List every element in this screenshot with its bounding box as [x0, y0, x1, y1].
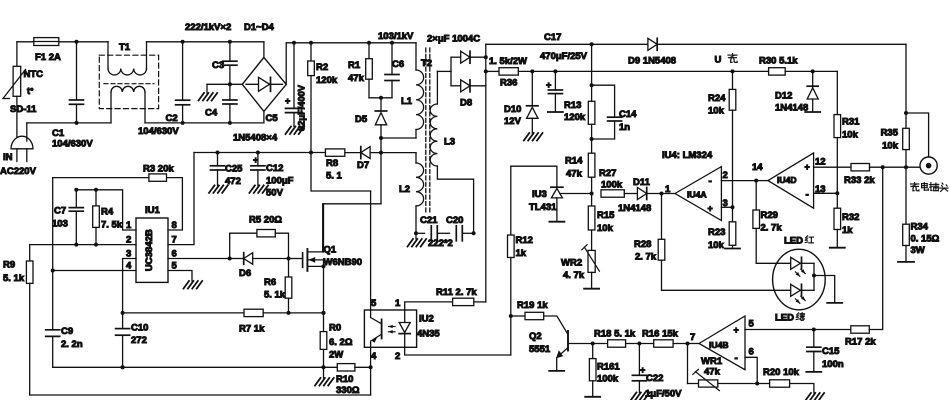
- LED green: [791, 284, 801, 296]
- ground at C12: [249, 185, 255, 193]
- wire bottom feedback rail: [30, 394, 371, 396]
- diode D8 top: [437, 70, 451, 72]
- svg-text:C25: C25: [225, 164, 243, 175]
- wire opto pin1 to R11: [405, 302, 453, 310]
- svg-text:4: 4: [371, 351, 377, 362]
- svg-text:Q2: Q2: [529, 331, 542, 342]
- svg-text:R1: R1: [348, 60, 361, 71]
- svg-text:C10: C10: [131, 323, 148, 334]
- bridge rectifier D1-D4 1N5408x4: [242, 57, 286, 111]
- svg-text:R10: R10: [336, 374, 353, 385]
- diode D12 1N4148: [811, 69, 815, 73]
- fuse F1 2A: [34, 38, 59, 46]
- svg-text:330Ω: 330Ω: [336, 385, 360, 396]
- resistor R33 2k: [851, 164, 870, 171]
- op-amp IU4B: [699, 316, 745, 370]
- svg-text:R7 1k: R7 1k: [239, 324, 265, 335]
- svg-text:R23: R23: [708, 227, 725, 238]
- ground at R23: [725, 248, 740, 250]
- svg-text:R8: R8: [326, 158, 338, 169]
- wire R2 to startup branch: [311, 153, 371, 192]
- svg-text:D7: D7: [357, 160, 369, 171]
- svg-text:R16 15k: R16 15k: [642, 329, 679, 340]
- svg-text:+: +: [640, 365, 645, 375]
- svg-text:R4: R4: [101, 207, 114, 218]
- svg-text:5551: 5551: [529, 344, 551, 355]
- resistor R34 0.15ohm 3W: [905, 167, 907, 224]
- svg-text:5: 5: [371, 298, 377, 309]
- wire sense line: [123, 312, 244, 314]
- svg-text:1k: 1k: [516, 248, 527, 259]
- svg-text:C21: C21: [420, 215, 438, 226]
- resistor R31 10k: [836, 71, 838, 114]
- resistor R2 120k: [310, 43, 312, 61]
- opto phototransistor: [370, 191, 372, 310]
- svg-text:104/630V: 104/630V: [138, 126, 179, 137]
- svg-text:WR1: WR1: [701, 356, 723, 367]
- resistor R30 5.1k: [769, 68, 786, 75]
- capacitor C20 222: [455, 226, 457, 241]
- svg-text:R36: R36: [500, 78, 517, 89]
- svg-text:C15: C15: [822, 346, 840, 357]
- svg-text:D6: D6: [239, 268, 251, 279]
- svg-text:LED: LED: [784, 236, 803, 247]
- ground at C22: [631, 393, 637, 400]
- resistor R16 15k: [654, 340, 673, 347]
- transistor Q1 W6NB90: [302, 253, 304, 268]
- svg-text:7: 7: [690, 332, 695, 343]
- svg-text:2W: 2W: [329, 350, 343, 361]
- svg-text:D5: D5: [355, 114, 368, 125]
- capacitor C3: [229, 42, 231, 61]
- resistor R18 5.1k: [593, 343, 608, 345]
- svg-text:R0: R0: [329, 323, 341, 334]
- svg-text:1: 1: [665, 184, 671, 195]
- svg-text:470μF/25V: 470μF/25V: [540, 51, 588, 62]
- wire Q1 source: [323, 266, 325, 331]
- svg-text:1. 5k/2W: 1. 5k/2W: [489, 56, 527, 67]
- capacitor C14 1n: [592, 85, 615, 117]
- diode D8 bottom: [450, 71, 452, 85]
- wire output rail right: [905, 44, 907, 128]
- svg-text:-: -: [709, 176, 712, 187]
- thermistor NTC SD-11: [13, 66, 21, 96]
- resistor R35 10k: [903, 128, 910, 149]
- wire bridge AC bottom: [263, 111, 265, 123]
- ground at TL431: [549, 221, 564, 223]
- resistor R11 2.7k: [453, 298, 474, 305]
- svg-text:R15: R15: [597, 210, 615, 221]
- ground at pin5: [184, 281, 190, 289]
- resistor R3 20k: [149, 174, 167, 181]
- svg-text:1: 1: [395, 298, 401, 309]
- capacitor C25 472: [216, 151, 220, 155]
- wire VCC rail: [194, 152, 325, 154]
- svg-text:100k: 100k: [601, 180, 623, 191]
- resistor R19 1k: [511, 315, 525, 317]
- svg-text:D11: D11: [633, 177, 651, 188]
- svg-text:R19 1k: R19 1k: [517, 300, 548, 311]
- ground at source rail: [323, 367, 325, 378]
- resistor R32 1k: [836, 193, 838, 208]
- transistor Q2 5551: [567, 331, 569, 351]
- svg-text:R14: R14: [565, 156, 583, 167]
- svg-text:C20: C20: [446, 215, 463, 226]
- svg-text:103/1kV: 103/1kV: [378, 31, 414, 42]
- svg-text:47k: 47k: [348, 73, 365, 84]
- svg-text:+: +: [546, 80, 551, 90]
- resistor R17 2k: [851, 326, 870, 333]
- svg-text:C3: C3: [212, 60, 224, 71]
- opto LED: [404, 310, 406, 323]
- resistor R36 1.5k/2W: [486, 70, 499, 72]
- svg-text:L3: L3: [444, 137, 455, 148]
- wire pin2 FB: [30, 244, 136, 246]
- svg-text:LED: LED: [775, 313, 794, 324]
- svg-text:C17: C17: [544, 32, 561, 43]
- svg-text:47k: 47k: [566, 169, 583, 180]
- ground at R34: [898, 261, 914, 263]
- svg-text:WR2: WR2: [561, 258, 582, 269]
- svg-text:IU4A: IU4A: [687, 190, 707, 200]
- svg-text:R9: R9: [3, 260, 15, 271]
- svg-text:10k: 10k: [708, 106, 725, 117]
- svg-text:D1~D4: D1~D4: [244, 22, 275, 33]
- svg-text:2. 7k: 2. 7k: [761, 223, 783, 234]
- diode D7: [370, 152, 381, 154]
- resistor R14 47k: [591, 139, 593, 153]
- zener diode D10 12V: [530, 69, 534, 73]
- svg-text:6: 6: [749, 347, 754, 358]
- resistor R20 10k: [757, 383, 769, 385]
- node drain: [379, 136, 383, 140]
- wire LED cathodes: [802, 262, 815, 264]
- wire IU4B pin5: [745, 329, 851, 331]
- ground at R20: [805, 393, 811, 400]
- svg-text:R13: R13: [564, 100, 581, 111]
- svg-text:100k: 100k: [597, 374, 619, 385]
- resistor R27 100k: [601, 190, 624, 197]
- svg-text:10k: 10k: [842, 130, 859, 141]
- op-amp IU4A: [675, 167, 721, 221]
- svg-text:R24: R24: [708, 93, 726, 104]
- ground at R32: [830, 247, 845, 249]
- svg-text:5. 1k: 5. 1k: [3, 273, 25, 284]
- wire pin3 current sense: [123, 259, 136, 313]
- wire AC neutral: [26, 123, 28, 141]
- wire IU4D pin12: [814, 166, 851, 168]
- svg-text:2×μF 1004C: 2×μF 1004C: [427, 34, 480, 45]
- resistor R28 2.7k: [661, 194, 663, 240]
- svg-text:3W: 3W: [911, 245, 925, 256]
- svg-text:6. 2Ω: 6. 2Ω: [329, 337, 353, 348]
- svg-text:-: -: [806, 190, 809, 201]
- wire opto pin4: [370, 347, 372, 367]
- svg-text:2: 2: [723, 170, 728, 181]
- wire gate: [289, 258, 303, 260]
- svg-text:222*2: 222*2: [428, 238, 453, 249]
- svg-text:T2: T2: [421, 58, 432, 69]
- resistor R161 100k: [592, 344, 594, 359]
- svg-text:10k: 10k: [708, 240, 725, 251]
- resistor R10 330ohm: [337, 364, 355, 371]
- svg-text:TL431: TL431: [529, 202, 557, 213]
- wire bridge AC top: [263, 42, 265, 58]
- wire pin4 RT/CT: [53, 270, 136, 272]
- svg-text:47k: 47k: [704, 367, 721, 378]
- svg-text:R12: R12: [516, 235, 533, 246]
- svg-text:L2: L2: [399, 184, 410, 195]
- svg-text:C1: C1: [52, 128, 65, 139]
- svg-text:t°: t°: [27, 86, 34, 96]
- svg-text:C22: C22: [646, 373, 663, 384]
- svg-text:R31: R31: [842, 117, 860, 128]
- capacitor C6 103/1kV: [391, 43, 393, 75]
- LED red: [756, 262, 791, 264]
- svg-text:1n: 1n: [619, 122, 630, 133]
- AC plug IN AC220V: [11, 136, 33, 149]
- op-amp IU4D: [756, 180, 768, 182]
- capacitor C4: [229, 84, 231, 100]
- svg-text:50V: 50V: [266, 188, 284, 199]
- ground at L2 return: [414, 231, 418, 235]
- svg-text:C9: C9: [61, 326, 73, 337]
- capacitor C7 103: [75, 190, 77, 208]
- ground at C3 C4 midpoint: [207, 83, 242, 85]
- svg-text:1N4148: 1N4148: [775, 103, 808, 114]
- svg-text:IU1: IU1: [145, 205, 161, 216]
- svg-text:2. 7k: 2. 7k: [635, 252, 657, 263]
- svg-text:D9 1N5408: D9 1N5408: [628, 56, 676, 67]
- svg-text:R3 20k: R3 20k: [143, 164, 174, 175]
- svg-text:R34: R34: [911, 222, 929, 233]
- wire R18 node: [591, 342, 595, 346]
- wire AC line top: [17, 41, 34, 43]
- svg-text:104/630V: 104/630V: [52, 139, 93, 150]
- svg-text:D10: D10: [504, 104, 521, 115]
- svg-text:10k: 10k: [597, 223, 614, 234]
- svg-text:100n: 100n: [822, 359, 844, 370]
- svg-text:1k: 1k: [842, 225, 853, 236]
- capacitor C5 82uF/400V: [293, 43, 295, 109]
- ground at C15: [806, 371, 821, 373]
- ground at D10: [524, 133, 530, 141]
- ground at C25: [209, 185, 215, 193]
- capacitor C21 222: [416, 232, 425, 234]
- svg-text:272: 272: [131, 335, 147, 346]
- transformer T2 winding L1: [416, 70, 424, 130]
- wire pin5 ground: [168, 271, 192, 282]
- transformer T2 winding L3: [436, 71, 438, 104]
- svg-text:T1: T1: [119, 42, 131, 53]
- wire charge rail U-chong: [555, 70, 768, 72]
- diode D5: [375, 113, 386, 125]
- svg-text:R32: R32: [842, 212, 859, 223]
- svg-text:103: 103: [52, 219, 68, 230]
- svg-text:4N35: 4N35: [417, 329, 440, 340]
- svg-text:U: U: [715, 55, 722, 66]
- resistor R5 20ohm: [230, 233, 257, 258]
- resistor R15 10k: [591, 194, 593, 207]
- diode D9 1N5408: [648, 38, 657, 50]
- resistor R13 120k: [591, 44, 593, 101]
- wire IU4A pin2: [721, 180, 756, 182]
- wire TL431 column: [510, 166, 512, 235]
- svg-text:Q1: Q1: [324, 245, 337, 256]
- svg-text:R28: R28: [634, 239, 651, 250]
- transformer T2 winding L2: [381, 152, 416, 154]
- svg-text:10k: 10k: [882, 141, 899, 152]
- wire pin7 VCC: [168, 153, 194, 245]
- svg-text:C12: C12: [266, 163, 283, 174]
- wire NTC to plug: [16, 96, 18, 140]
- optocoupler IU2 4N35: [364, 310, 416, 347]
- svg-text:R30 5.1k: R30 5.1k: [759, 56, 798, 67]
- svg-text:12: 12: [815, 157, 826, 168]
- svg-text:C6: C6: [392, 59, 404, 70]
- wire drain zigzag: [323, 204, 381, 252]
- svg-text:222/1kV×2: 222/1kV×2: [185, 22, 231, 33]
- svg-text:4. 7k: 4. 7k: [563, 270, 585, 281]
- svg-text:+: +: [734, 325, 739, 335]
- svg-text:W6NB90: W6NB90: [324, 257, 363, 268]
- T1 bottom winding: [110, 92, 112, 123]
- wire snubber junction: [369, 97, 392, 99]
- svg-text:+: +: [285, 96, 290, 106]
- svg-text:NTC: NTC: [24, 69, 44, 80]
- svg-text:R161: R161: [597, 362, 620, 373]
- svg-text:IU2: IU2: [419, 314, 434, 325]
- wire IU4B pin6: [745, 357, 757, 383]
- svg-text:IU4: LM324: IU4: LM324: [662, 150, 713, 161]
- controller IU1 UC3842B: [136, 218, 168, 282]
- svg-text:IU4D: IU4D: [777, 175, 797, 185]
- svg-text:2: 2: [395, 351, 400, 362]
- svg-text:1μF/50V: 1μF/50V: [645, 389, 682, 400]
- svg-text:R6: R6: [264, 277, 276, 288]
- resistor R9 5.1k: [29, 245, 31, 261]
- wire pin1 COMP: [76, 190, 136, 230]
- svg-text:120k: 120k: [316, 75, 338, 86]
- resistor R29 2.7k: [755, 181, 757, 210]
- svg-text:L1: L1: [401, 96, 413, 107]
- ground at D12: [805, 111, 820, 113]
- svg-text:R17 2k: R17 2k: [845, 337, 876, 348]
- wire output top rail: [486, 43, 648, 45]
- svg-text:C2: C2: [166, 113, 178, 124]
- svg-text:R20 10k: R20 10k: [763, 367, 800, 378]
- charging plug socket: [920, 157, 937, 174]
- svg-text:5. 1k: 5. 1k: [264, 290, 286, 301]
- transformer T2 core: [425, 48, 427, 212]
- resistor R8 5.1: [325, 149, 344, 156]
- svg-text:1N4148: 1N4148: [618, 203, 651, 214]
- svg-text:C4: C4: [205, 108, 218, 119]
- wire rectifier output bus: [485, 44, 487, 302]
- svg-text:5. 1: 5. 1: [326, 171, 343, 182]
- capacitor C12 100uF 50V: [256, 151, 260, 155]
- svg-text:100μF: 100μF: [266, 176, 294, 187]
- diode D6: [230, 258, 244, 260]
- svg-text:+: +: [805, 162, 810, 172]
- svg-text:7. 5k: 7. 5k: [101, 220, 123, 231]
- resistor R0 6.2ohm 2W: [320, 332, 327, 350]
- svg-text:SD-11: SD-11: [10, 104, 37, 115]
- capacitor C1 104/630V: [76, 42, 78, 100]
- svg-text:R18 5. 1k: R18 5. 1k: [594, 329, 636, 340]
- wire L1 bottom to drain: [381, 137, 416, 139]
- svg-text:2. 2n: 2. 2n: [61, 339, 83, 350]
- resistor R12 1k: [508, 235, 515, 258]
- svg-text:IN: IN: [3, 152, 13, 163]
- svg-text:1N5408×4: 1N5408×4: [233, 133, 278, 144]
- svg-text:IU4B: IU4B: [709, 340, 729, 350]
- potentiometer WR1 47k: [688, 383, 699, 385]
- capacitor C22 1uF/50V: [638, 344, 640, 376]
- common-mode choke T1: [99, 55, 158, 108]
- capacitor C9 2.2n: [52, 271, 54, 330]
- ground at Q2 emitter: [549, 370, 564, 372]
- capacitor C17 470uF/25V: [553, 69, 557, 73]
- svg-text:R35: R35: [881, 128, 899, 139]
- resistor R24 10k: [731, 69, 735, 73]
- capacitor C15 100n: [813, 330, 815, 348]
- potentiometer WR2 4.7k: [588, 250, 595, 272]
- capacitor C10 272: [122, 313, 124, 329]
- wire primary ground rail: [53, 366, 338, 368]
- wire bridge + output to DC bus: [285, 43, 287, 85]
- svg-text:-: -: [735, 353, 738, 364]
- ground at LED: [827, 302, 842, 304]
- resistor R4 7.5k: [95, 190, 97, 206]
- svg-text:R33 2k: R33 2k: [844, 175, 875, 186]
- svg-text:C5: C5: [266, 113, 279, 124]
- svg-text:C14: C14: [619, 109, 637, 120]
- dual LED indicator circle: [773, 249, 826, 310]
- svg-text:82μF/400V: 82μF/400V: [297, 84, 307, 131]
- svg-text:+: +: [253, 155, 258, 165]
- wire IU4A pin3: [721, 206, 732, 208]
- wire opto pin2: [405, 347, 511, 355]
- svg-text:0. 15Ω: 0. 15Ω: [911, 234, 940, 245]
- svg-text:IU3: IU3: [532, 189, 547, 200]
- svg-text:UC3842B: UC3842B: [144, 229, 155, 271]
- wire left input: [16, 42, 18, 67]
- wire R3 to pin4 column: [52, 178, 54, 271]
- svg-text:120k: 120k: [564, 112, 586, 123]
- svg-text:D12: D12: [775, 91, 792, 102]
- svg-text:12V: 12V: [504, 116, 522, 127]
- capacitor C2 104/630V: [182, 42, 184, 100]
- svg-text:C7: C7: [54, 206, 66, 217]
- svg-text:R2: R2: [316, 62, 328, 73]
- svg-text:AC220V: AC220V: [0, 166, 37, 177]
- svg-text:14: 14: [752, 162, 763, 173]
- svg-text:R29: R29: [761, 210, 778, 221]
- T1 top winding: [107, 42, 109, 69]
- shunt regulator IU3 TL431: [511, 166, 557, 187]
- resistor R23 10k: [729, 222, 736, 246]
- diode D11 1N4148: [637, 188, 646, 200]
- ground at WR2: [584, 288, 599, 290]
- svg-text:R27: R27: [599, 168, 616, 179]
- svg-text:R5 20Ω: R5 20Ω: [249, 215, 282, 226]
- svg-text:R11 2. 7k: R11 2. 7k: [436, 287, 477, 298]
- svg-text:5: 5: [749, 319, 755, 330]
- resistor R6 5.1k: [288, 259, 290, 278]
- resistor R7 1k: [244, 309, 263, 316]
- ground at R161: [585, 396, 600, 398]
